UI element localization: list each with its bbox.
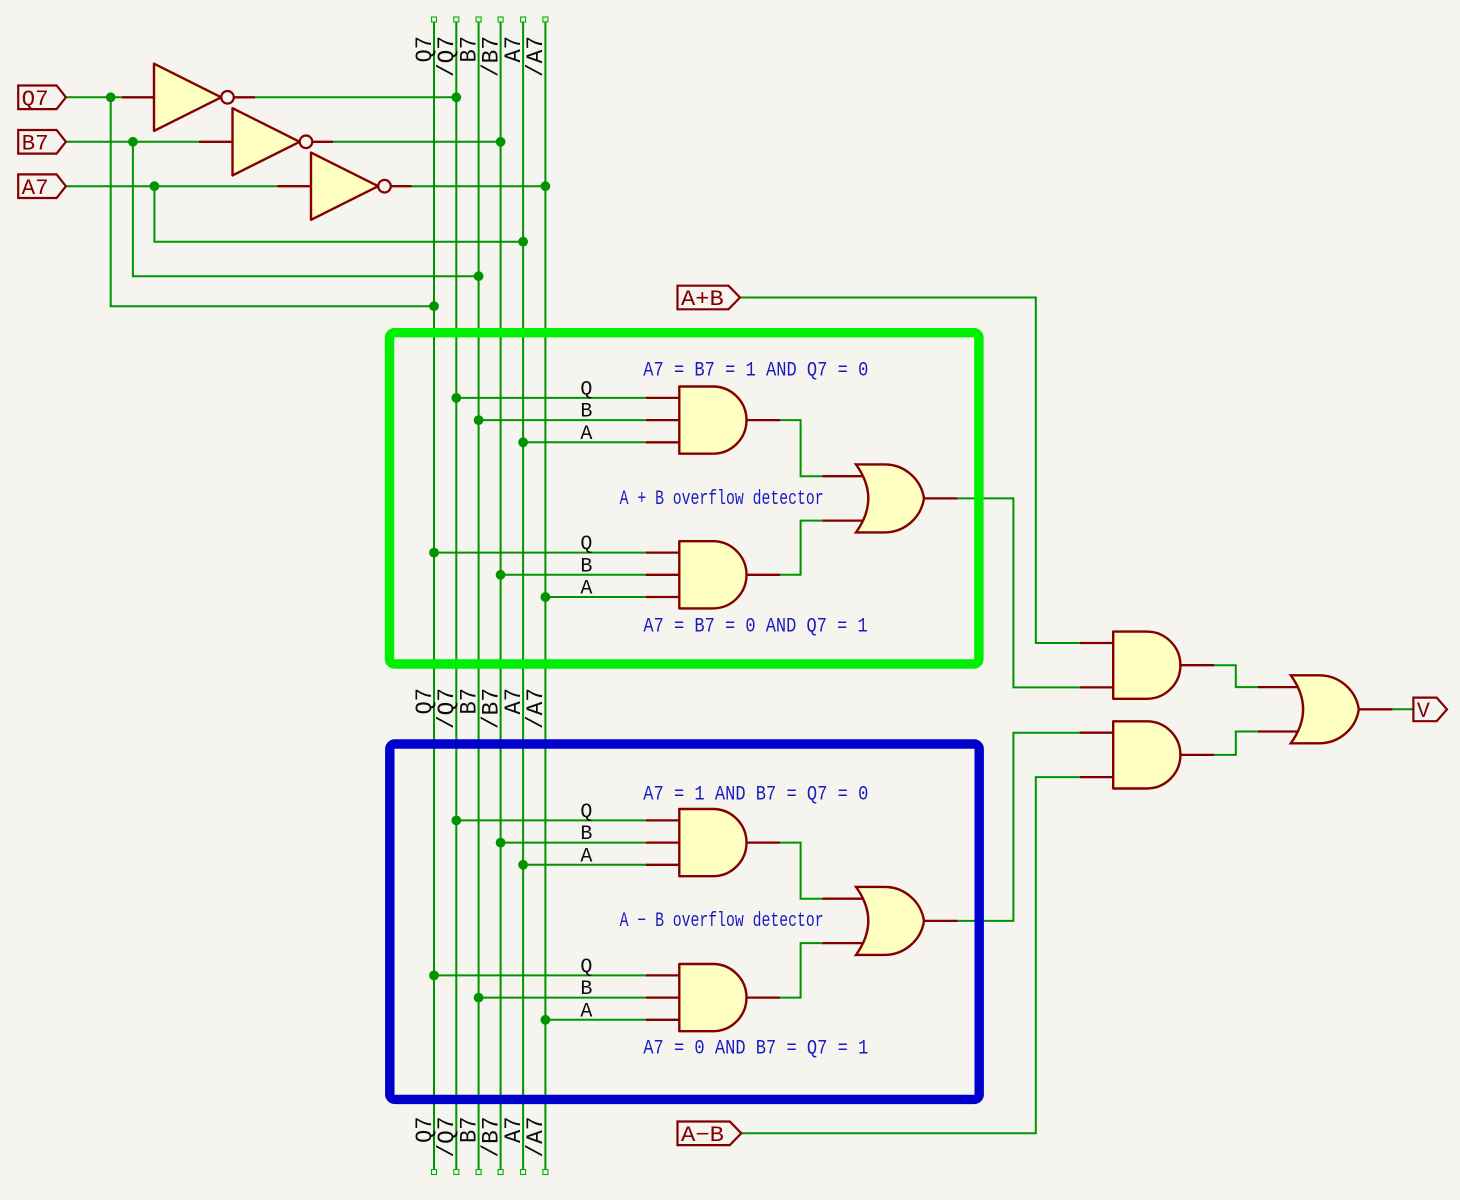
hierarchical label V <box>1413 698 1447 724</box>
svg-text:B: B <box>580 401 592 424</box>
pin U5 output pin <box>747 996 781 998</box>
svg-text:Q: Q <box>580 533 592 556</box>
inverter U10 <box>154 64 234 131</box>
pin U5 pin 2 <box>646 996 680 998</box>
unconnected end B7 bottom <box>476 1170 481 1175</box>
svg-text:Q: Q <box>580 379 592 402</box>
pin U1 pin 1 <box>646 397 680 399</box>
junction U1 B <box>474 415 484 425</box>
pin U1 pin 3 <box>646 441 680 443</box>
wire U5 out to U6 <box>780 943 822 998</box>
wire U5 Q input <box>434 974 646 976</box>
or-gate U3 <box>856 464 924 532</box>
and-gate U2 <box>679 541 746 608</box>
wire U5 B input <box>479 997 646 999</box>
wire U4 A input <box>523 864 646 866</box>
pin U8 pin 2 <box>1080 776 1114 778</box>
unconnected end Q7 bottom <box>432 1170 437 1175</box>
hierarchical label A+B <box>678 286 741 312</box>
wire bus /A7 vertical <box>544 22 546 1169</box>
svg-text:A7 = 1 AND B7 = Q7 = 0: A7 = 1 AND B7 = Q7 = 0 <box>643 784 868 807</box>
junction U1 A <box>518 437 528 447</box>
wire B7 from label <box>66 141 199 143</box>
and-gate U5 <box>679 964 746 1031</box>
svg-text:A: A <box>580 845 592 868</box>
wire U7 out to U9 <box>1214 665 1258 687</box>
pin U2 output pin <box>747 574 781 576</box>
svg-text:B: B <box>580 555 592 578</box>
wire U5 A input <box>545 1019 645 1021</box>
pin U5 pin 3 <box>646 1019 680 1021</box>
wire U1 Q input <box>456 397 645 399</box>
junction U5 B <box>474 993 484 1003</box>
unconnected end B7 top <box>476 17 481 22</box>
unconnected end /B7 top <box>498 17 503 22</box>
svg-text:A7 = B7 = 0 AND Q7 = 1: A7 = B7 = 0 AND Q7 = 1 <box>643 616 867 639</box>
junction U2 Q <box>429 548 439 558</box>
svg-text:A7 = 0 AND B7 = Q7 = 1: A7 = 0 AND B7 = Q7 = 1 <box>643 1038 868 1061</box>
pin U2 pin 3 <box>646 596 680 598</box>
hierarchical label A-B <box>678 1122 742 1148</box>
pin U11 inverter output <box>312 141 333 143</box>
unconnected end /A7 top <box>543 17 548 22</box>
wire /A7 inverter output <box>412 185 546 187</box>
pin U7 pin 2 <box>1080 686 1114 688</box>
graphic box A-B overflow detector <box>390 744 979 1099</box>
pin U3 pin 2 <box>822 519 864 521</box>
and-gate U1 <box>679 387 746 454</box>
svg-text:A: A <box>580 423 592 446</box>
svg-text:A − B overflow detector: A − B overflow detector <box>620 910 824 933</box>
wire U4 B input <box>501 842 646 844</box>
wire U1 B input <box>479 419 646 421</box>
junction Q7 bus <box>429 301 439 311</box>
pin U8 output pin <box>1180 754 1214 756</box>
pin U5 pin 1 <box>646 974 680 976</box>
wire B7 feed to bus <box>133 142 479 276</box>
svg-text:B: B <box>580 978 592 1001</box>
pin U12 inverter output <box>391 185 412 187</box>
wire bus /Q7 vertical <box>455 22 457 1169</box>
wire A7 feed to bus <box>154 186 523 242</box>
svg-text:/A7: /A7 <box>523 36 549 77</box>
svg-text:A7 = B7 = 1 AND Q7 = 0: A7 = B7 = 1 AND Q7 = 0 <box>643 360 868 383</box>
junction B7 tap <box>128 137 138 147</box>
or-gate U6 <box>856 887 924 955</box>
pin U4 pin 3 <box>646 864 680 866</box>
wire U8 out to U9 <box>1214 732 1258 755</box>
wire U2 Q input <box>434 552 646 554</box>
junction U2 A <box>541 592 551 602</box>
pin U1 pin 2 <box>646 419 680 421</box>
hierarchical label A7 <box>18 174 66 200</box>
pin U2 pin 2 <box>646 574 680 576</box>
wire A-B to U8 <box>741 777 1080 1133</box>
and-gate U7 <box>1113 632 1180 699</box>
svg-text:V: V <box>1417 699 1431 724</box>
junction /B7 bus <box>496 137 506 147</box>
or-gate U9 <box>1291 675 1359 743</box>
junction U4 A <box>518 860 528 870</box>
pin U11 inverter input <box>199 141 233 143</box>
pin U9 pin 2 <box>1258 730 1299 732</box>
junction U5 A <box>541 1015 551 1025</box>
hierarchical label B7 <box>18 130 66 156</box>
wire bus /B7 vertical <box>500 22 502 1169</box>
svg-text:Q: Q <box>580 956 592 979</box>
pin U1 output pin <box>747 419 781 421</box>
pin U4 output pin <box>747 841 781 843</box>
junction U1 Q <box>451 393 461 403</box>
pin U8 pin 1 <box>1080 732 1114 734</box>
wire Q7 feed to bus <box>111 97 434 306</box>
pin U2 pin 1 <box>646 551 680 553</box>
unconnected end A7 top <box>521 17 526 22</box>
pin U4 pin 1 <box>646 819 680 821</box>
svg-text:A: A <box>580 1000 592 1023</box>
junction U5 Q <box>429 971 439 981</box>
wire A7 from label <box>66 185 278 187</box>
svg-text:B7: B7 <box>22 131 49 156</box>
wire A+B to U7 <box>740 298 1080 644</box>
hierarchical label Q7 <box>18 86 66 112</box>
svg-text:/A7: /A7 <box>523 688 549 729</box>
and-gate U4 <box>679 809 746 876</box>
pin U6 output pin <box>924 920 958 922</box>
wire U2 A input <box>545 596 645 598</box>
pin U6 pin 2 <box>822 942 864 944</box>
unconnected end /A7 bottom <box>543 1170 548 1175</box>
graphic box A+B overflow detector <box>390 333 979 664</box>
wire /Q7 inverter output <box>255 96 456 98</box>
unconnected end /Q7 bottom <box>454 1170 459 1175</box>
pin U7 pin 1 <box>1080 642 1114 644</box>
svg-text:A: A <box>580 578 592 601</box>
junction U2 B <box>496 570 506 580</box>
pin U3 output pin <box>924 497 958 499</box>
junction U4 B <box>496 838 506 848</box>
wire /B7 inverter output <box>333 141 501 143</box>
pin U4 pin 2 <box>646 841 680 843</box>
wire bus B7 vertical <box>478 22 480 1169</box>
junction B7 bus <box>474 271 484 281</box>
svg-text:A + B overflow detector: A + B overflow detector <box>620 488 824 511</box>
pin U10 inverter input <box>122 96 154 98</box>
inverter U11 <box>233 108 313 175</box>
pin U7 output pin <box>1180 664 1214 666</box>
wire U1 A input <box>523 441 646 443</box>
pin U9 pin 1 <box>1258 686 1299 688</box>
junction /A7 bus <box>541 181 551 191</box>
pin U10 inverter output <box>234 96 255 98</box>
wire bus A7 vertical <box>522 22 524 1169</box>
junction Q7 tap <box>106 92 116 102</box>
wire U6 out to U8 <box>958 733 1080 921</box>
junction U4 Q <box>451 816 461 826</box>
svg-text:A7: A7 <box>22 176 49 201</box>
svg-text:Q7: Q7 <box>22 87 49 112</box>
wire U2 B input <box>501 574 646 576</box>
pin U12 inverter input <box>277 185 311 187</box>
svg-text:/A7: /A7 <box>523 1117 549 1158</box>
svg-text:Q: Q <box>580 801 592 824</box>
unconnected end /B7 bottom <box>498 1170 503 1175</box>
wire bus Q7 vertical <box>433 22 435 1169</box>
pin U3 pin 1 <box>822 475 864 477</box>
and-gate U8 <box>1113 721 1180 788</box>
junction /Q7 bus <box>451 92 461 102</box>
unconnected end /Q7 top <box>454 17 459 22</box>
svg-text:A−B: A−B <box>681 1123 724 1148</box>
svg-text:A+B: A+B <box>681 287 724 312</box>
wire U1 out to U3 <box>780 420 822 476</box>
wire U3 out to U7 <box>958 498 1080 687</box>
wire U4 Q input <box>456 819 645 821</box>
unconnected end Q7 top <box>432 17 437 22</box>
wire U4 out to U6 <box>780 843 822 899</box>
unconnected end A7 bottom <box>521 1170 526 1175</box>
junction A7 bus <box>518 237 528 247</box>
pin U9 output pin <box>1359 708 1393 710</box>
wire U9 out to V <box>1392 708 1414 710</box>
wire U2 out to U3 <box>780 521 822 575</box>
junction A7 tap <box>150 181 160 191</box>
wire Q7 from label <box>66 96 122 98</box>
inverter U12 <box>311 153 391 220</box>
pin U6 pin 1 <box>822 898 864 900</box>
svg-text:B: B <box>580 823 592 846</box>
